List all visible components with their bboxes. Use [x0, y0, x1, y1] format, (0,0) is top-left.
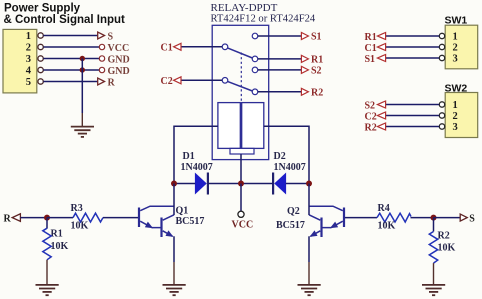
svg-text:10K: 10K — [378, 221, 396, 232]
relay coil bottom tab — [230, 148, 254, 154]
svg-text:S2: S2 — [311, 66, 322, 77]
relay coil core line — [240, 103, 242, 149]
wire pin3 to GND terminal — [43, 58, 99, 60]
wire S node to arrow — [434, 217, 461, 219]
svg-text:4: 4 — [26, 66, 32, 77]
wire SW2 pin3 R2 — [386, 126, 440, 128]
resistor R3 — [73, 213, 103, 222]
junction dot pin3 GND — [80, 56, 85, 61]
ground symbol (Q2) — [298, 285, 321, 295]
svg-text:2: 2 — [453, 43, 458, 54]
node C2 arrow (SW2) — [377, 112, 385, 119]
svg-text:S: S — [108, 31, 114, 42]
svg-text:2: 2 — [26, 43, 31, 54]
power terminal VCC circle — [238, 211, 244, 217]
svg-text:S1: S1 — [311, 32, 322, 43]
wire S2 — [258, 69, 302, 71]
wire SW1 pin3 S1 — [386, 57, 440, 59]
svg-text:Q2: Q2 — [287, 206, 300, 217]
svg-text:R1: R1 — [311, 55, 323, 66]
ground symbol (R1) — [36, 285, 59, 295]
ground symbol (R2) — [422, 285, 445, 295]
node GND terminal circle (pin3) — [99, 56, 104, 61]
svg-text:10K: 10K — [438, 242, 456, 253]
svg-text:VCC: VCC — [108, 43, 130, 54]
svg-text:BC517: BC517 — [176, 216, 205, 227]
wire R node down to R1 — [46, 218, 48, 229]
ground symbol (Q1) — [163, 285, 186, 295]
wire R2 — [258, 91, 302, 93]
svg-text:R1: R1 — [365, 32, 377, 43]
wire pin2 to VCC terminal — [43, 46, 99, 48]
svg-text:VCC: VCC — [232, 220, 254, 231]
wire SW1 pin1 R1 — [386, 35, 440, 37]
wire SW1 pin2 C1 — [386, 46, 440, 48]
svg-text:RELAY-DPDT: RELAY-DPDT — [211, 2, 278, 14]
J1 pin terminal circles — [38, 33, 43, 84]
svg-text:RT424F12 or RT424F24: RT424F12 or RT424F24 — [211, 14, 316, 25]
node S output arrow — [98, 32, 105, 39]
ground lead (Q2) — [308, 262, 310, 285]
transistor Q1 (NPN darlington BC517) — [139, 206, 174, 237]
wire coil left end — [174, 126, 218, 181]
SW1 pin circles — [439, 33, 444, 60]
relay contact pole circle C1 — [222, 44, 228, 50]
svg-text:Power Supply: Power Supply — [4, 3, 81, 15]
svg-text:10K: 10K — [71, 221, 89, 232]
relay contact pole circle C2 — [222, 78, 228, 84]
ground lead (Q1) — [173, 262, 175, 285]
svg-text:5: 5 — [26, 77, 31, 88]
svg-text:1: 1 — [26, 31, 31, 42]
svg-text:C1: C1 — [365, 43, 377, 54]
svg-text:R: R — [4, 213, 12, 224]
junction dot R node — [44, 215, 50, 221]
node R2 arrow (SW2) — [377, 123, 385, 130]
relay contact circle S1 — [252, 33, 258, 39]
wire Q2 base to R4 — [345, 217, 377, 219]
wire Q2 emitter to ground — [308, 236, 310, 262]
svg-text:C1: C1 — [161, 42, 173, 53]
svg-text:C2: C2 — [161, 76, 173, 87]
diode D2 — [273, 173, 286, 195]
relay contact circle R2 — [252, 89, 258, 95]
node GND terminal circle (pin4) — [99, 67, 104, 72]
wire Q1 collector — [173, 184, 175, 216]
wire SW2 pin2 C2 — [386, 115, 440, 117]
junction dot left coil node — [171, 181, 177, 187]
wire R2 to ground — [433, 263, 435, 285]
wire pin1 to S terminal — [43, 35, 97, 37]
ground symbol (top-left) — [71, 127, 94, 137]
svg-text:R1: R1 — [51, 229, 63, 240]
node R2 arrow — [301, 88, 308, 95]
node R1 arrow — [301, 55, 308, 62]
wire pin4 to GND terminal — [43, 69, 99, 71]
relay actuator dashed link — [240, 53, 242, 103]
svg-text:R2: R2 — [311, 87, 323, 98]
svg-text:3: 3 — [453, 122, 458, 133]
relay coil left half — [218, 103, 240, 149]
svg-text:R4: R4 — [378, 203, 390, 214]
wire R node to R3 — [47, 217, 73, 219]
svg-text:1: 1 — [453, 100, 458, 111]
svg-text:GND: GND — [108, 66, 130, 77]
wire Q1 emitter to ground — [173, 236, 175, 262]
svg-text:R2: R2 — [365, 122, 377, 133]
relay RL1 body outline — [212, 25, 269, 159]
wire D2 anode to Q2 collector node — [286, 183, 309, 185]
svg-text:S: S — [469, 213, 475, 224]
wire R4 to S node — [411, 217, 434, 219]
wire VCC node to D2 cathode — [241, 183, 273, 185]
node S output arrow — [460, 214, 467, 221]
svg-text:1N4007: 1N4007 — [274, 162, 306, 173]
node S2 arrow — [301, 66, 308, 73]
node S1 arrow — [301, 33, 308, 40]
relay contact circle S2 — [252, 67, 258, 73]
wire GND rows down to ground — [81, 59, 83, 114]
node C1 arrow (SW1) — [377, 44, 385, 51]
wire D1 anode to Q1 collector node — [174, 183, 195, 185]
node R1 arrow (SW1) — [377, 33, 385, 40]
node R output arrow — [98, 78, 105, 85]
connector SW2 body — [445, 93, 478, 138]
connector J1 power supply header body — [3, 29, 37, 93]
diode D1 — [195, 173, 208, 195]
svg-text:10K: 10K — [51, 241, 69, 252]
relay switch blade C1-R1 — [228, 48, 253, 58]
wire R arrow to junction — [20, 217, 47, 219]
svg-text:C2: C2 — [365, 111, 377, 122]
wire R3 to Q1 base — [103, 217, 138, 219]
resistor R1 — [43, 228, 51, 260]
svg-text:R3: R3 — [71, 203, 83, 214]
node C2 arrow — [174, 77, 181, 84]
resistor R2 — [429, 232, 437, 264]
SW2 pin circles — [439, 102, 444, 129]
svg-text:D1: D1 — [183, 151, 195, 162]
svg-text:R: R — [108, 77, 116, 88]
svg-text:R2: R2 — [438, 231, 450, 242]
node R input arrow — [12, 214, 20, 222]
wire S1 — [258, 35, 302, 37]
wire Q2 collector — [308, 184, 310, 216]
relay switch blade C2-R2 — [228, 81, 253, 91]
junction dot VCC node — [238, 181, 244, 187]
node S2 arrow (SW2) — [377, 101, 385, 108]
wire C1 — [181, 46, 222, 48]
svg-text:2: 2 — [453, 111, 458, 122]
junction dot pin4 GND — [80, 67, 85, 72]
node C1 arrow — [174, 43, 181, 50]
svg-text:BC517: BC517 — [276, 220, 305, 231]
wire SW2 pin1 S2 — [386, 104, 440, 106]
node S1 arrow (SW1) — [377, 55, 385, 62]
connector SW1 body — [445, 25, 478, 69]
ground lead (top-left) — [81, 113, 83, 126]
svg-text:1N4007: 1N4007 — [181, 162, 213, 173]
junction dot right coil node — [306, 181, 312, 187]
svg-text:D2: D2 — [274, 151, 286, 162]
junction dot S node — [431, 215, 437, 221]
title: Power Supply & Control Signal Input — [4, 3, 126, 26]
svg-text:& Control Signal Input: & Control Signal Input — [4, 14, 126, 26]
relay coil right half — [242, 103, 264, 149]
svg-text:GND: GND — [108, 54, 130, 65]
svg-text:S1: S1 — [365, 54, 376, 65]
wire S node down to R2 — [433, 218, 435, 232]
wire VCC node down — [240, 184, 242, 212]
svg-text:3: 3 — [26, 54, 31, 65]
wire C2 — [181, 79, 222, 81]
wire pin5 to R terminal — [43, 81, 97, 83]
wire D1 cathode to VCC node — [208, 183, 241, 185]
resistor R4 — [377, 213, 411, 222]
node VCC terminal circle — [99, 44, 104, 49]
wire R1 to ground — [46, 260, 48, 285]
relay contact circle R1 — [252, 56, 258, 62]
svg-text:S2: S2 — [365, 100, 376, 111]
wire R1 — [258, 58, 302, 60]
svg-text:3: 3 — [453, 54, 458, 65]
transistor Q2 (NPN darlington BC517, mirrored) — [309, 206, 344, 237]
wire coil tab to VCC node — [240, 154, 242, 181]
svg-text:1: 1 — [453, 32, 458, 43]
wire coil right end — [264, 126, 309, 181]
